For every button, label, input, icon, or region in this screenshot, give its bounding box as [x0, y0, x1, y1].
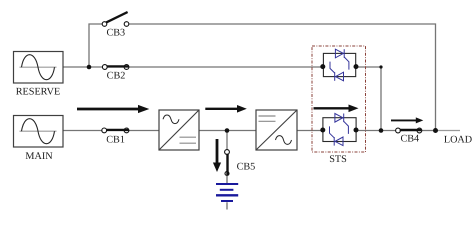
- svg-text:CB3: CB3: [106, 28, 125, 39]
- svg-text:CB1: CB1: [106, 134, 125, 145]
- svg-text:CB2: CB2: [107, 71, 126, 82]
- svg-text:CB5: CB5: [237, 162, 256, 173]
- svg-text:LOAD: LOAD: [444, 135, 472, 146]
- svg-text:CB4: CB4: [400, 134, 419, 145]
- svg-text:RESERVE: RESERVE: [16, 87, 60, 98]
- svg-text:MAIN: MAIN: [25, 151, 53, 162]
- svg-text:STS: STS: [329, 154, 347, 165]
